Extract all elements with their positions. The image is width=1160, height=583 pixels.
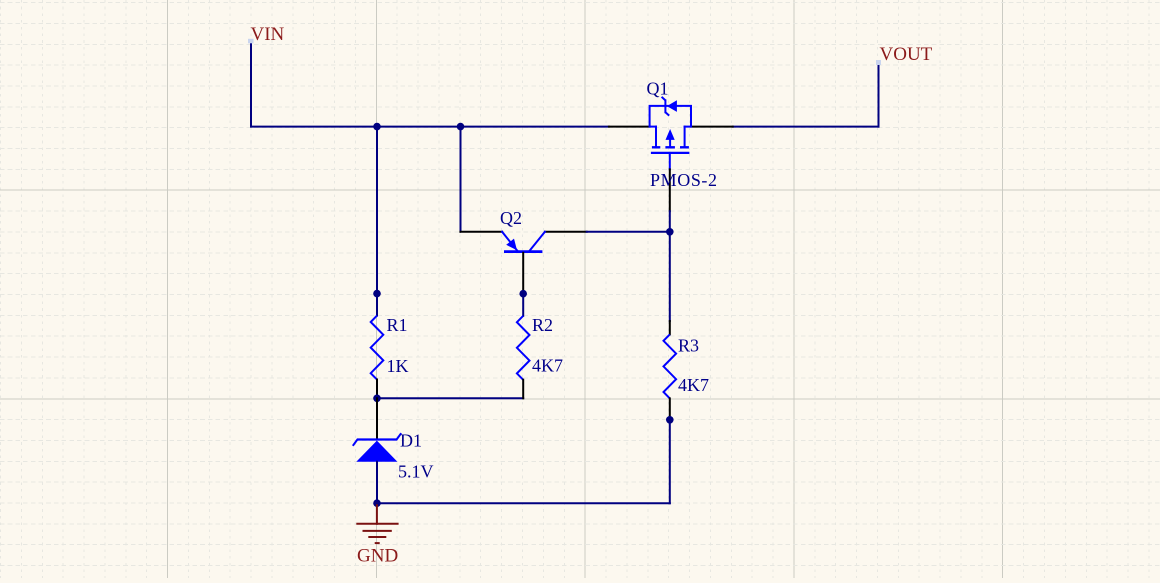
transistor Q1 channel stub left (655, 127, 657, 147)
wire VOUT vertical (878, 64, 880, 127)
wire node down to R3 (669, 232, 671, 321)
transistor Q1 zener hook top (662, 97, 666, 101)
resistor R3 pin top (black) (669, 321, 671, 334)
wire end marker VIN (248, 39, 254, 44)
svg-text:4K7: 4K7 (678, 375, 709, 395)
svg-text:VOUT: VOUT (880, 44, 933, 65)
svg-text:1K: 1K (387, 356, 409, 376)
diode D1 pin top (black) (376, 398, 378, 439)
wire junction to R1 top (376, 294, 378, 316)
svg-text:R3: R3 (678, 336, 699, 356)
node junction at (460.5,127) (457, 123, 465, 131)
svg-text:D1: D1 (400, 431, 422, 451)
node junction at GND (373, 499, 381, 507)
transistor Q1 gate stem (669, 153, 671, 170)
ground bar 2 (363, 530, 392, 532)
svg-text:5.1V: 5.1V (398, 462, 434, 482)
svg-text:4K7: 4K7 (532, 356, 563, 376)
svg-text:Q1: Q1 (647, 79, 669, 99)
transistor Q1 pin gate (black) (669, 169, 671, 211)
transistor Q2 collector diagonal (530, 232, 545, 251)
resistor R1 body (371, 316, 384, 380)
resistor R3 pin bottom (black) (669, 398, 671, 419)
wire bottom rail to GND node (377, 502, 670, 504)
node junction above R2 (519, 290, 527, 298)
wire D1 anode to GND node (376, 462, 378, 504)
svg-text:R2: R2 (532, 315, 553, 335)
diode D1 zener hook left (353, 440, 358, 446)
wire VIN rail down to Q2 emitter (460, 127, 463, 232)
transistor Q1 contact bar right (680, 146, 689, 148)
transistor Q2 base bar (504, 250, 542, 253)
svg-text:GND: GND (357, 546, 398, 567)
node junction gate/collector/R3 (666, 228, 674, 236)
ground bar 4 (375, 542, 380, 544)
transistor Q2 pin emitter (black) (460, 231, 502, 233)
transistor Q1 substrate arrow (666, 129, 675, 140)
node junction above R1 (373, 290, 381, 298)
ground stub (376, 503, 378, 524)
svg-text:Q2: Q2 (500, 208, 522, 228)
transistor Q1 body diode triangle (667, 100, 677, 112)
svg-text:VIN: VIN (251, 24, 285, 45)
ground bar 3 (368, 536, 386, 538)
transistor Q1 zener hook bottom (665, 112, 669, 115)
ground bar 1 (356, 523, 398, 525)
diode D1 cathode bar (357, 438, 398, 440)
transistor Q1 wire-level connectors (650, 126, 656, 128)
diode D1 zener hook right (397, 433, 402, 439)
transistor Q1 arrow stem (669, 140, 671, 147)
node junction below R3 (666, 416, 674, 424)
wire Q2 collector to gate node (587, 231, 670, 233)
transistor Q1 contact bar middle (665, 146, 675, 148)
resistor R2 pin bottom (black) (522, 380, 524, 399)
wire VIN vertical (250, 44, 252, 127)
transistor Q2 pin base (black) (522, 253, 524, 294)
wire end marker VOUT (876, 60, 881, 65)
svg-text:PMOS-2: PMOS-2 (650, 170, 718, 190)
transistor Q1 gate plate (651, 152, 690, 154)
wire VIN node down to R1 (376, 127, 378, 294)
resistor R1 pin bottom (black) (376, 380, 378, 399)
transistor Q1 body-diode box (650, 106, 691, 127)
transistor Q1 body zener diode bar (664, 100, 666, 112)
wire junction to R2 top (522, 294, 524, 316)
node junction at (377,127) (373, 123, 381, 131)
resistor R3 body (664, 334, 677, 398)
transistor Q2 emitter arrow (506, 239, 517, 251)
transistor Q2 emitter diagonal (502, 232, 517, 251)
wire R3 to bottom rail (669, 420, 671, 503)
transistor Q2 pin collector (black) (545, 231, 587, 233)
transistor Q1 pin drain (right, black) (691, 126, 733, 128)
transistor Q1 contact bar left (652, 146, 660, 148)
svg-text:R1: R1 (387, 315, 408, 335)
transistor Q1 pin source (left, black) (609, 126, 650, 128)
transistor Q1 channel stub right (684, 127, 686, 147)
resistor R2 body (517, 316, 530, 380)
wire gate to Q2 collector node (669, 211, 671, 232)
node junction R1/D1/R2 (373, 395, 381, 403)
wire top rail left (VIN to Q1 source pin) (251, 126, 609, 128)
wire top rail right (Q1 drain pin to VOUT) (733, 126, 879, 128)
diode D1 triangle (356, 441, 397, 462)
wire bottom of R1 to bottom of R2 (377, 397, 523, 399)
